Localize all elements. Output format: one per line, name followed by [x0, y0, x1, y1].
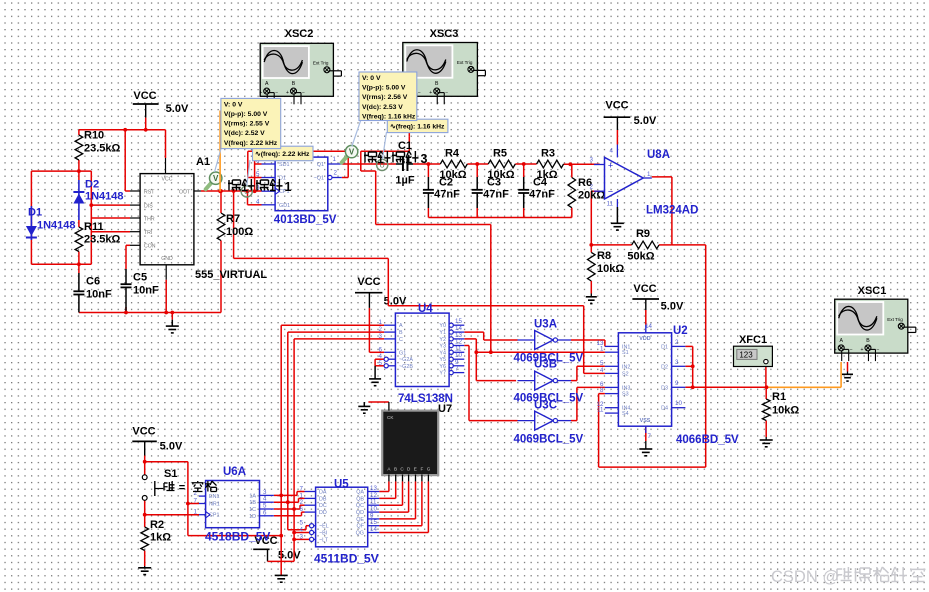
svg-text:−: −: [275, 90, 278, 96]
leader line probe3 tooltip: [352, 120, 361, 147]
svg-text:XSC3: XSC3: [430, 28, 459, 40]
wire R11 bottom: [78, 252, 80, 265]
svg-text:4511BD_5V: 4511BD_5V: [314, 552, 379, 566]
svg-text:U4: U4: [418, 303, 433, 315]
svg-text:4: 4: [610, 148, 614, 155]
wire U6A 1D to U5 DD: [274, 515, 302, 517]
wire U4 input A rail: [281, 324, 384, 326]
wire R6 bottom: [571, 208, 573, 218]
wire 4013 GD1 tie: [247, 191, 249, 205]
wire counter bus C vertical: [293, 339, 295, 562]
svg-text:50kΩ: 50kΩ: [627, 251, 654, 263]
power VCC (U4 supply): [355, 292, 382, 294]
capacitor C5: [125, 269, 127, 284]
wire D1 loop top: [31, 170, 91, 172]
svg-text:−: −: [302, 90, 305, 96]
wire OUT drop to lower stage: [233, 191, 235, 258]
svg-text:EN1: EN1: [209, 494, 220, 500]
counter U6A 4518BD_5V box: [206, 481, 260, 528]
wire probe branch at Q1 node: [360, 151, 362, 171]
svg-text:1: 1: [647, 171, 651, 178]
analog switch U2 4066BD_5V box: [618, 333, 671, 426]
wire R2 to ground: [144, 551, 146, 567]
svg-text:U6A: U6A: [223, 466, 246, 478]
svg-text:S2: S2: [622, 371, 629, 377]
wire TRI pin: [91, 231, 130, 233]
svg-text:2: 2: [334, 170, 338, 177]
wire R9 left to - node: [591, 244, 631, 246]
svg-text:C2: C2: [439, 177, 453, 189]
capacitor C4: [523, 177, 525, 190]
svg-text:C5: C5: [133, 272, 147, 284]
probe 3 magnifier: [342, 155, 349, 163]
svg-text:47nF: 47nF: [529, 189, 555, 201]
wire C3 drop: [476, 164, 478, 177]
svg-text:SD1: SD1: [279, 162, 290, 168]
svg-text:=: =: [179, 482, 185, 494]
wire U4 input C rail: [294, 338, 384, 340]
wire XSC1 B ground: [847, 362, 849, 372]
svg-text:D3: D3: [661, 385, 668, 391]
svg-text:123: 123: [739, 351, 753, 360]
resistor R6: [568, 178, 576, 208]
svg-text:IN3: IN3: [622, 385, 630, 391]
svg-text:5.0V: 5.0V: [634, 115, 657, 127]
svg-text:A: A: [399, 323, 403, 329]
svg-text:DB: DB: [319, 496, 327, 502]
diode D2 1N4148: [78, 180, 80, 220]
svg-text:D1: D1: [661, 344, 668, 350]
wire chain to C6: [78, 264, 80, 273]
svg-text:D2: D2: [85, 179, 99, 191]
wire R10 top lead: [78, 130, 80, 135]
resistor R8: [588, 252, 596, 281]
oscilloscope XSC2: [260, 43, 333, 96]
wire to U5 ~LT: [294, 538, 309, 540]
svg-text:CSDN @: CSDN @: [771, 568, 839, 586]
wire U3C out to U2 IN3: [571, 420, 577, 422]
svg-text:V: V: [349, 148, 355, 157]
svg-text:OUT: OUT: [179, 190, 191, 196]
power VCC (op-amp U8A supply): [604, 116, 631, 118]
svg-text:QC: QC: [356, 503, 364, 509]
wire output to right loop: [672, 244, 706, 246]
svg-text:VCC: VCC: [605, 100, 628, 112]
seven-segment display U7: [382, 411, 438, 476]
power VCC (U2 supply): [632, 298, 659, 300]
svg-text:1N4148: 1N4148: [37, 220, 76, 232]
wire U7 CK to ground: [368, 401, 389, 403]
svg-text:7: 7: [194, 498, 198, 505]
wire VCC to U6A left rail: [145, 461, 188, 463]
wire U4 Y2 to U3B: [464, 338, 476, 340]
svg-text:Y2: Y2: [439, 337, 446, 343]
ground U2 VSS: [645, 441, 647, 449]
wire 555 OUT to 4013 CP1: [201, 190, 262, 192]
wire to U2 S2: [388, 305, 583, 307]
svg-text:CP1: CP1: [209, 513, 220, 519]
svg-text:2: 2: [590, 184, 594, 191]
wire C2 drop: [427, 164, 429, 177]
svg-text:11: 11: [597, 407, 604, 414]
resistor R3: [537, 160, 564, 168]
svg-text:10nF: 10nF: [86, 289, 112, 301]
svg-text:R7: R7: [226, 213, 240, 225]
svg-text:1B: 1B: [249, 500, 256, 506]
wire U4 VCC to G1: [368, 308, 370, 352]
svg-text:Y3: Y3: [439, 344, 446, 350]
svg-text:A1: A1: [196, 156, 210, 168]
svg-text:GND: GND: [161, 256, 173, 262]
svg-text:B: B: [866, 338, 870, 344]
leader line probe1 tooltip: [215, 149, 221, 172]
wire R10 to D2 junction: [78, 160, 80, 180]
svg-text:~G2B: ~G2B: [399, 364, 413, 370]
wire filter ground bus: [428, 217, 571, 219]
junction dots: [144, 128, 148, 132]
wire U4 Y3 to U3C: [464, 345, 469, 347]
wire U6A 1B to U5 DB: [274, 501, 299, 503]
svg-text:+: +: [608, 161, 613, 171]
wire U2 D3 output node: [685, 386, 766, 388]
svg-text:4013BD_5V: 4013BD_5V: [274, 214, 337, 226]
svg-text:DD: DD: [319, 510, 327, 516]
inverter U3A 4069BCL_5V: [535, 331, 554, 350]
ground under op-amp: [616, 207, 618, 223]
wire op-amp VCC: [616, 130, 618, 145]
leader line probe1 strip: [247, 160, 250, 186]
svg-text:Q1: Q1: [317, 162, 324, 168]
wire U4 Y1 to U3A: [464, 331, 483, 333]
wire R5 to R3: [515, 163, 536, 165]
svg-text:14: 14: [370, 526, 377, 533]
svg-text:Ext Trig: Ext Trig: [313, 61, 329, 66]
svg-text:U8A: U8A: [647, 149, 670, 161]
wire to U5 ~EL: [288, 529, 306, 531]
wire D2 to R11: [78, 220, 80, 227]
wire 4013 SD1 tie: [254, 161, 256, 192]
inverter U3C 4069BCL_5V: [535, 411, 554, 430]
svg-text:1A: 1A: [249, 493, 256, 499]
wire R6 top: [571, 164, 573, 177]
wire U5 QA to display segment A: [379, 491, 389, 493]
wire U4 G2A/G2B to ground: [375, 358, 384, 360]
wire U5 QF to display segment F: [379, 525, 422, 527]
wire U3A out to U2 IN1: [571, 339, 605, 341]
label S1 key equals space: [164, 481, 175, 491]
svg-text:NR1: NR1: [209, 502, 220, 508]
svg-text:5: 5: [600, 360, 604, 367]
label probe1 Chinese: [228, 180, 241, 191]
wire VCC to 555 VCC pin: [165, 130, 167, 158]
wire CON pin to C5: [126, 244, 130, 246]
svg-text:XSC1: XSC1: [858, 285, 887, 297]
svg-text:XSC2: XSC2: [285, 28, 314, 40]
svg-text:U5: U5: [334, 479, 349, 491]
svg-text:2: 2: [675, 339, 679, 346]
svg-text:DIS: DIS: [144, 204, 153, 210]
svg-text:U: U: [380, 163, 385, 170]
wire counter bus B vertical: [287, 332, 289, 530]
svg-text:~BI: ~BI: [319, 531, 327, 537]
svg-text:R1: R1: [772, 391, 786, 403]
svg-text:3: 3: [300, 533, 304, 540]
svg-text:−: −: [418, 90, 421, 96]
svg-text:C6: C6: [86, 276, 100, 288]
svg-text:∿(freq): 1.16 kHz: ∿(freq): 1.16 kHz: [390, 124, 445, 131]
svg-text:V(dc): 2.52 V: V(dc): 2.52 V: [224, 130, 265, 137]
wire C5 bottom: [125, 307, 127, 313]
svg-text:Y0: Y0: [439, 323, 446, 329]
svg-text:7: 7: [648, 433, 652, 440]
power VCC (U6A supply): [132, 440, 157, 442]
svg-text:VCC: VCC: [357, 276, 380, 288]
svg-text:G1: G1: [399, 350, 406, 356]
svg-text:23.5kΩ: 23.5kΩ: [84, 143, 121, 155]
wire C4 drop: [523, 164, 525, 177]
svg-text:Y4: Y4: [439, 350, 446, 356]
wire DIS pin: [91, 204, 130, 206]
svg-text:Ext Trig: Ext Trig: [887, 317, 903, 322]
tooltip probe3 measurements: [359, 72, 417, 121]
svg-text:VCC: VCC: [132, 426, 155, 438]
wire U5 QG to display segment G: [379, 532, 428, 534]
svg-text:10: 10: [675, 400, 682, 407]
svg-text:1: 1: [600, 346, 604, 353]
ground U7 CK: [363, 402, 365, 406]
svg-text:1D: 1D: [249, 514, 256, 520]
svg-text:5: 5: [256, 171, 260, 178]
wire 4013 Q1 output: [342, 163, 396, 165]
tooltip probe1 measurements: [221, 98, 281, 148]
svg-text:−: −: [850, 347, 853, 353]
svg-text:~Q1: ~Q1: [314, 176, 324, 182]
svg-text:R9: R9: [636, 228, 650, 240]
svg-text:THR: THR: [144, 217, 155, 223]
wire to U2 S1: [476, 351, 605, 353]
wire R1 top: [765, 387, 767, 399]
wire bottom ground stem: [280, 536, 282, 576]
orange wire XSC2 A channel: [219, 111, 221, 192]
svg-text:C1: C1: [398, 140, 412, 152]
svg-text:V(freq): 2.22 kHz: V(freq): 2.22 kHz: [224, 140, 278, 147]
svg-text:V: 0 V: V: 0 V: [362, 75, 381, 82]
probe 3 attach ring: [377, 159, 388, 170]
ground U4 G2 pins: [374, 366, 376, 379]
svg-text:~G2A: ~G2A: [399, 357, 413, 363]
capacitor C6: [78, 273, 80, 291]
svg-text:QA: QA: [356, 490, 364, 496]
wire U5 QE to display segment E: [379, 518, 415, 520]
svg-text:DA: DA: [319, 490, 327, 496]
svg-text:4066BD_5V: 4066BD_5V: [676, 434, 739, 446]
svg-text:47nF: 47nF: [434, 189, 460, 201]
svg-text:VCC: VCC: [162, 177, 173, 183]
svg-text:Y6: Y6: [439, 364, 446, 370]
svg-text:1: 1: [333, 156, 337, 163]
svg-text:C3: C3: [487, 177, 501, 189]
svg-text:F: F: [420, 467, 423, 472]
resistor R1: [762, 399, 770, 421]
wire D1 loop bottom: [31, 263, 91, 265]
svg-text:+: +: [286, 90, 289, 96]
decoder U5 4511BD_5V box: [316, 487, 368, 547]
svg-text:−: −: [876, 347, 879, 353]
svg-text:XFC1: XFC1: [739, 334, 767, 346]
svg-text:Y7: Y7: [439, 371, 446, 377]
svg-text:~LT: ~LT: [319, 537, 329, 543]
oscilloscope XSC3: [403, 43, 478, 97]
wire counter bus A vertical: [280, 325, 282, 535]
svg-text:100Ω: 100Ω: [226, 226, 253, 238]
tooltip strip probe1 freq: [253, 146, 314, 161]
svg-text:~EL: ~EL: [319, 524, 329, 530]
svg-text:9: 9: [675, 380, 679, 387]
svg-text:TRI: TRI: [144, 230, 152, 236]
svg-text:R5: R5: [493, 148, 507, 160]
svg-text:3: 3: [421, 152, 428, 166]
svg-text:S1: S1: [164, 468, 177, 480]
U7 pin stubs: [388, 475, 390, 482]
decoder U4 74LS138N box: [395, 313, 449, 386]
svg-text:D2: D2: [661, 364, 668, 370]
capacitor C2: [427, 177, 429, 190]
wire THR pin: [91, 217, 130, 219]
switch S1: [142, 475, 147, 480]
wire VCC to S1: [144, 456, 146, 475]
svg-text:C4: C4: [533, 177, 548, 189]
svg-text:+: +: [834, 347, 837, 353]
svg-text:47nF: 47nF: [483, 189, 509, 201]
svg-text:VDD: VDD: [639, 336, 650, 342]
svg-text:∿(freq): 2.22 kHz: ∿(freq): 2.22 kHz: [255, 151, 310, 158]
svg-text:B: B: [435, 81, 439, 87]
svg-text:U3C: U3C: [534, 400, 557, 412]
svg-text:U2: U2: [673, 325, 688, 337]
wire R7 bottom: [220, 241, 222, 313]
svg-text:Ext Trig: Ext Trig: [457, 60, 473, 65]
svg-text:3: 3: [590, 157, 594, 164]
svg-text:4: 4: [256, 198, 260, 205]
svg-text:U3A: U3A: [534, 319, 557, 331]
svg-text:QB: QB: [356, 496, 364, 502]
svg-text:QF: QF: [357, 524, 365, 530]
svg-text:1: 1: [194, 509, 198, 516]
svg-text:GD1: GD1: [279, 203, 290, 209]
ground below R1: [765, 437, 767, 440]
svg-text:B: B: [394, 467, 397, 472]
svg-text:1N4148: 1N4148: [85, 191, 124, 203]
wire op-amp - input: [591, 190, 599, 192]
svg-text:V(freq): 1.16 kHz: V(freq): 1.16 kHz: [362, 113, 416, 120]
wire U2 VDD: [645, 310, 647, 325]
svg-text:23.5kΩ: 23.5kΩ: [84, 234, 121, 246]
flip-flop U? 4013BD_5V box: [275, 157, 328, 211]
wire U2 VSS: [645, 426, 647, 441]
wire ground stem: [171, 313, 173, 320]
svg-text:V(p-p): 5.00 V: V(p-p): 5.00 V: [362, 85, 406, 92]
wire U5 VCC link: [268, 560, 295, 562]
svg-text:6: 6: [263, 509, 267, 516]
svg-text:14: 14: [645, 323, 652, 330]
svg-text:R11: R11: [84, 221, 104, 233]
wire VCC to 555 RST pin: [124, 130, 126, 191]
wire U2 D1/D2 tie: [685, 345, 692, 347]
svg-text:5: 5: [379, 360, 383, 367]
svg-text:V: V: [213, 174, 219, 183]
wire U6A 1A to U5 DA: [274, 494, 297, 496]
svg-text:1: 1: [285, 180, 292, 194]
wire R7 top: [220, 191, 222, 213]
leader line probe3 strip: [382, 132, 386, 160]
svg-text:7: 7: [455, 366, 459, 373]
resistor R4: [440, 160, 467, 168]
svg-text:V(p-p): 5.00 V: V(p-p): 5.00 V: [224, 111, 268, 118]
svg-text:10nF: 10nF: [133, 285, 159, 297]
wire 4013 feedback ~Q1 to D1: [247, 151, 249, 177]
capacitor C1: [402, 157, 404, 171]
svg-text:1C: 1C: [249, 507, 256, 513]
svg-text:Y1: Y1: [439, 330, 446, 336]
wire R1 bottom: [765, 421, 767, 438]
wire D1 loop left: [30, 171, 32, 264]
resistor R5: [488, 160, 515, 168]
svg-text:−: −: [608, 187, 613, 197]
wire U2 S3 loop: [599, 393, 605, 395]
svg-text:D1: D1: [28, 207, 42, 219]
wire VCC rail to 555: [145, 118, 147, 130]
svg-text:VCC: VCC: [133, 90, 156, 102]
svg-text:R10: R10: [84, 130, 104, 142]
svg-text:+: +: [429, 90, 432, 96]
ground bottom U5 area: [275, 574, 288, 576]
oscilloscope XSC1: [835, 299, 908, 353]
op-amp U8A LM324AD: [605, 157, 644, 199]
wire 555 GND pin: [165, 280, 167, 313]
svg-text:B: B: [292, 81, 296, 87]
wire U6A NR1: [188, 503, 199, 505]
svg-text:C: C: [399, 337, 403, 343]
svg-text:R8: R8: [597, 250, 611, 262]
wire to XSC3 channel A: [361, 150, 410, 152]
svg-text:R3: R3: [541, 148, 555, 160]
svg-text:S3: S3: [622, 392, 629, 398]
svg-text:DC: DC: [319, 503, 327, 509]
svg-text:QG: QG: [356, 531, 364, 537]
wire U5 QB to display segment B: [379, 497, 395, 499]
wire XFC1 drop: [765, 364, 767, 387]
svg-text:S1: S1: [622, 350, 629, 356]
power VCC (U5 supply): [253, 548, 269, 550]
svg-text:CON: CON: [144, 244, 156, 250]
svg-text:5.0V: 5.0V: [166, 103, 189, 115]
svg-text:11: 11: [607, 201, 614, 208]
resistor R11: [75, 227, 83, 252]
svg-text:V: 0 V: V: 0 V: [224, 101, 243, 108]
svg-text:A: A: [839, 338, 843, 344]
resistor R9: [632, 241, 659, 249]
svg-text:VSS: VSS: [640, 418, 651, 424]
svg-text:4069BCL_5V: 4069BCL_5V: [514, 433, 584, 445]
svg-text:CK: CK: [387, 415, 394, 420]
frequency counter XFC1: [734, 346, 773, 366]
wire D1 loop right: [90, 171, 92, 264]
svg-text:R4: R4: [445, 148, 460, 160]
svg-text:LM324AD: LM324AD: [646, 205, 698, 217]
svg-text:S4: S4: [622, 411, 629, 417]
svg-text:+: +: [259, 90, 262, 96]
resistor R7: [217, 213, 225, 241]
